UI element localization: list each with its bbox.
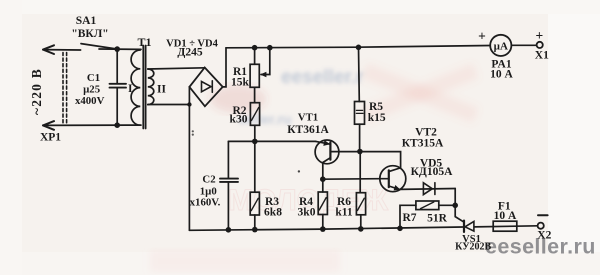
bridge rectifier VD1-VD4 diamond [189,68,222,107]
C2 plates [220,179,238,182]
watermark red blob [210,85,266,113]
R7 slash [421,202,434,209]
svg-text:µА: µА [494,41,508,53]
wire emitter row [228,140,315,142]
switch SA1 lever [81,44,116,49]
svg-text:"ВКЛ": "ВКЛ" [71,28,108,40]
resistor R5 lead top [358,47,361,101]
wire top rail [226,46,490,48]
svg-text:КУ202В: КУ202В [455,242,491,253]
svg-text:+: + [478,29,486,44]
R4 slash [319,198,326,210]
transformer T1 core [143,46,145,129]
resistor R1 leads [254,48,256,103]
svg-text:XP1: XP1 [40,132,61,144]
wire AC top left [43,49,81,51]
resistor R1 body [250,64,259,87]
wire meter to X1 [511,44,536,46]
wire AC bottom [43,124,141,126]
svg-text:II: II [157,83,166,95]
ammeter PA1 circle [490,35,511,56]
svg-text:µ25: µ25 [83,83,100,95]
svg-text:C2: C2 [202,174,215,186]
R7 right lead [439,204,455,206]
terminal X2 [538,223,544,229]
transistor VT2 circle [380,166,406,192]
svg-text:1µ0: 1µ0 [200,185,217,197]
svg-text:x400V: x400V [75,95,105,107]
resistor R4 top lead [322,179,324,192]
junction dot switch/C1 top [114,46,120,52]
resistor R5 body [355,102,365,125]
watermark pink smear bottom [150,250,340,272]
filled parts [114,45,458,233]
R3 slash [251,198,258,210]
VT1 emitter arrowhead [323,140,330,146]
R2 bottom lead [254,125,256,141]
svg-text:КТ361А: КТ361А [287,124,329,136]
R6 top lead [359,152,361,193]
plug XP1 dashed lines [63,53,67,125]
wire left rail [188,87,190,230]
wire VT2 base row [323,178,380,181]
terminal X1 [537,42,543,48]
junction dot VT1 base / R5 R6 [357,149,363,155]
svg-text:10 А: 10 А [490,68,513,80]
svg-text:Д245: Д245 [177,47,202,59]
resistor R2 body [250,103,259,126]
svg-text:R7: R7 [402,212,416,224]
watermark pink ribbon [361,63,478,123]
svg-text:VT1: VT1 [298,112,318,124]
wire secondary bottom to left rail [148,104,190,106]
thyristor VS1 [463,221,465,232]
R3 bottom lead [254,215,256,230]
VT1 base lead wire to VT2 collector [330,152,400,172]
capacitor C1 [116,49,118,83]
svg-text:T1: T1 [137,35,151,49]
C2 bottom lead [227,182,229,230]
junction dot rail R3 [252,227,258,233]
junction dot C1 bottom [114,122,120,128]
svg-text:C1: C1 [87,72,100,84]
resistor R7 body [416,201,439,210]
bridge diode symbol [202,81,213,93]
arrow AC top [43,45,54,54]
junction dot VT1 collector / R4 / VT2 base [320,176,326,182]
svg-text:3k0: 3k0 [298,206,316,218]
VT2 base bar [388,170,390,187]
R4 bottom lead [322,215,324,230]
junction dot top rail wiper [267,45,273,51]
svg-text:КТ315А: КТ315А [402,138,444,150]
svg-text:51R: 51R [427,212,448,224]
R5 bottom lead [359,124,361,151]
VT1 base bar [329,142,331,159]
scan speck dot [298,170,300,172]
wire bottom rail right (through fuse to X2) [474,226,537,227]
svg-text:k30: k30 [230,113,248,125]
svg-text:I: I [128,83,133,95]
resistor R6 body [356,193,365,215]
svg-text:10 А: 10 А [494,210,517,222]
svg-text:+: + [536,28,544,43]
wire switch to T1 [99,48,141,50]
R1 wiper wire [261,48,270,75]
minus mark X2 [538,214,548,216]
svg-text:x160V.: x160V. [190,197,221,209]
svg-text:X2: X2 [537,229,551,241]
R7 left lead [400,205,416,228]
arrow AC bottom [43,121,54,130]
svg-text:k15: k15 [368,112,386,124]
junction dot top rail R1 column [252,45,258,51]
svg-text:15k: 15k [231,77,250,89]
capacitor C2 top lead [227,141,229,178]
R1 wiper arrowhead [260,72,266,78]
R6 bottom lead [360,215,362,229]
svg-text:eeseller.r: eeseller.r [281,67,364,88]
VS1 gate wire [455,205,463,222]
junction dot rail C2 [226,227,232,233]
VT1 collector [323,158,331,180]
wire bottom rail [189,227,462,230]
VD5 down lead [454,189,456,206]
svg-text:X1: X1 [535,50,549,62]
svg-text:6k8: 6k8 [264,206,282,218]
resistor R4 body [318,192,327,215]
VT2 base inside [380,178,389,180]
wire secondary top to bridge [148,68,205,69]
resistor R3 body [250,192,259,215]
scan speck colon [192,130,194,132]
wire bridge output riser [223,48,226,87]
svg-text:k11: k11 [335,206,353,218]
svg-text:~220 В: ~220 В [29,68,44,115]
R5 inner marks [356,110,363,113]
VT2 emitter inside [389,186,400,189]
junction dot rail R4 [320,226,326,232]
junction dot rail R7 [397,226,403,232]
R2 slash [251,108,258,121]
junction dot emitter row R column [252,139,258,145]
diode VD5 [423,183,435,195]
transistor VT1 circle [315,140,339,164]
VT2 emitter arrowhead [394,185,401,190]
svg-text:КД105А: КД105А [411,166,454,178]
junction dot top rail R5 [356,45,362,51]
transformer T1 primary winding [131,50,140,125]
R6 slash [357,198,364,210]
VT1 emitter inside [316,141,330,144]
junction dot secondary/left rail [187,102,191,106]
transformer T1 secondary winding [148,69,154,105]
junction dot rail R6 [358,226,364,232]
fuse F1 body [493,221,517,231]
svg-text:SA1: SA1 [76,15,97,27]
resistor R3 top lead [254,141,256,192]
junction dot VD5/R7/gate [452,203,458,209]
wire VD5 row [400,188,455,191]
